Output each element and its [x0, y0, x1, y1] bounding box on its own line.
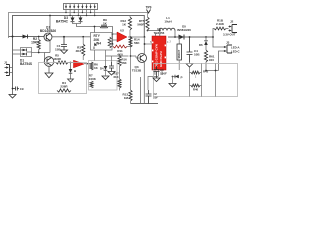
svg-text:J3: J3 [226, 41, 230, 45]
svg-text:BAT54C: BAT54C [56, 20, 69, 24]
ground C1 [61, 50, 68, 54]
capacitor C3 [109, 62, 114, 71]
op-amp U2 (red) [117, 32, 127, 42]
resistor R5 label [53, 54, 62, 62]
diode D3 label [56, 16, 69, 24]
svg-text:BAT54S: BAT54S [20, 62, 32, 66]
svg-text:910: 910 [209, 58, 214, 62]
ground C3 [108, 72, 115, 76]
wire V+ top rail (inner) [13, 16, 145, 91]
wire output rail [168, 36, 213, 38]
svg-text:J1: J1 [4, 61, 8, 65]
connector J1 [5, 65, 13, 76]
resistor R3 [82, 37, 85, 60]
transistor Q3 [136, 54, 147, 63]
box battery section [39, 63, 87, 94]
svg-text:10B: 10B [194, 53, 200, 57]
resistor R9 [100, 25, 117, 34]
wire lower box links [190, 64, 217, 97]
diode D7 [68, 63, 78, 83]
svg-text:2.49K: 2.49K [216, 22, 225, 26]
capacitor C1 [61, 36, 67, 50]
resistor R6 [90, 62, 99, 70]
wire Q1 collector [49, 15, 51, 34]
diode D1 (dual) [13, 48, 32, 57]
svg-text:SM04T: SM04T [177, 49, 181, 58]
resistor R18 bottom [191, 84, 200, 91]
svg-text:TS13B: TS13B [132, 69, 142, 73]
diode D3 (dual) [71, 16, 101, 33]
svg-text:D6: D6 [199, 43, 203, 47]
resistor R5 [54, 61, 73, 64]
diode D5 label [177, 25, 191, 33]
transistor Q3 label [132, 65, 142, 73]
trimmer RV1 text [94, 34, 102, 49]
wire Q2 collector [45, 52, 51, 54]
svg-text:C9: C9 [20, 87, 24, 91]
IC U1 label [154, 27, 165, 35]
wire Q1 emitter [49, 41, 51, 53]
resistor R12 [128, 16, 131, 38]
resistor RT5 [146, 17, 149, 31]
wire D1 to Q2 base [32, 52, 45, 61]
resistor RT5 label [137, 19, 145, 27]
svg-text:GND PwPd: GND PwPd [159, 51, 163, 67]
svg-text:P: P [181, 76, 183, 80]
wire Q3 emitter [143, 62, 145, 104]
wire Q1 base [9, 36, 45, 38]
resistor R16 (box) [177, 37, 181, 70]
wire Q3 collector [143, 37, 145, 55]
resistor R2 label [31, 37, 38, 45]
wire J3 cathode [219, 51, 224, 71]
svg-text:10K: 10K [31, 41, 38, 45]
svg-text:226R: 226R [60, 85, 68, 89]
svg-text:LED-C: LED-C [231, 50, 240, 54]
transistor Q1 [44, 33, 52, 41]
wire mid vertical 1 [131, 56, 137, 58]
pin numbers U1 [150, 41, 169, 75]
resistor R14 [129, 37, 132, 90]
wire x94 vertical [94, 50, 96, 61]
wire U1 pins left [144, 43, 152, 45]
diode D5 [179, 35, 185, 40]
diode D8 [172, 75, 183, 80]
wire U1 pin top [156, 30, 161, 36]
svg-text:560R: 560R [137, 23, 145, 27]
transistor Q1 label [40, 26, 56, 34]
label LED-A [231, 46, 240, 54]
svg-text:J2: J2 [230, 20, 234, 24]
wire U1 pins bottom [155, 70, 162, 76]
svg-text:IN5819/20: IN5819/20 [177, 28, 191, 32]
connector CON1 [64, 4, 98, 17]
test point TP9 [146, 6, 152, 14]
connector J2 [229, 25, 238, 33]
wire Q2 emitter to ground [45, 66, 53, 78]
resistor R16 [118, 55, 127, 70]
capacitor C2b [146, 90, 159, 104]
connector J3 label [226, 41, 230, 45]
node out junctions [174, 36, 207, 38]
label 3.3V-OUT [223, 33, 236, 37]
svg-text:D4: D4 [100, 67, 104, 71]
svg-text:4K3: 4K3 [75, 49, 81, 53]
diode D4 [100, 62, 107, 74]
inductor L1 [148, 28, 176, 37]
ground C5 [153, 78, 160, 82]
box output section [154, 64, 238, 97]
svg-text:4K3R: 4K3R [53, 57, 62, 61]
box feedback section [89, 61, 118, 91]
wire collector bus [52, 36, 91, 38]
resistor R8 right of box [108, 37, 111, 48]
ground left rail [9, 90, 16, 98]
resistor R9 label [103, 18, 108, 26]
IC U1 (red) [152, 36, 166, 70]
node base junction [12, 36, 14, 38]
resistor R15 label [209, 55, 215, 63]
svg-text:BD140/826: BD140/826 [40, 29, 56, 33]
wire J3 anode [212, 36, 223, 47]
wire x105 vertical [106, 50, 129, 62]
diode D6 [170, 37, 208, 50]
capacitor C5 [154, 66, 168, 78]
ground C4 [186, 62, 193, 67]
resistor R10 label [216, 19, 225, 27]
resistor R15 [204, 50, 218, 71]
svg-text:R46: R46 [193, 88, 199, 92]
svg-text:U2: U2 [120, 29, 124, 33]
svg-text:56K: 56K [122, 61, 127, 65]
ground D8 [169, 77, 176, 88]
wire V+ top rail (outer) [9, 13, 148, 39]
connector J2 label [230, 20, 234, 24]
resistor R17 top [191, 70, 209, 79]
inductor L1 label [164, 16, 171, 24]
svg-text:TP9: TP9 [146, 6, 152, 10]
diode D1 label [20, 59, 32, 67]
svg-text:100K: 100K [89, 77, 97, 81]
resistor R13 label [122, 93, 128, 101]
resistor R4 [57, 89, 71, 92]
ground D4 [102, 74, 109, 80]
resistor R13 [129, 90, 132, 104]
wire box to opamp inputs [112, 33, 117, 45]
capacitor C1 label [55, 44, 61, 52]
svg-text:10uH: 10uH [164, 20, 171, 24]
resistor R3 label [75, 46, 81, 54]
resistor R14 label [134, 38, 140, 46]
svg-text:56K: 56K [134, 41, 140, 45]
svg-text:100F: 100F [160, 72, 167, 76]
transistor Q2 [44, 57, 54, 67]
resistor R10 [213, 27, 229, 37]
svg-text:IN4: IN4 [96, 42, 101, 46]
resistor R7 [90, 81, 93, 88]
connector J3 [224, 45, 233, 53]
wire bottom bus [131, 77, 159, 104]
wire U2 output [128, 36, 145, 38]
svg-text:1M: 1M [124, 96, 129, 100]
resistor R11 feedback [113, 37, 131, 57]
box RV1 section [91, 33, 113, 51]
svg-text:3.3V-OUT: 3.3V-OUT [223, 33, 236, 37]
resistor R7 label [89, 74, 97, 82]
resistor R12 label [120, 19, 126, 27]
svg-text:61K: 61K [114, 75, 119, 79]
capacitor C2 left [12, 87, 24, 92]
connector J1 label [4, 61, 8, 65]
op-amp U2 label [120, 29, 124, 33]
op-amp U3 (red) [74, 60, 91, 68]
capacitor C4 [187, 37, 201, 62]
resistor R17 [114, 70, 122, 91]
diode D2 [23, 35, 28, 39]
resistor R4 label [60, 81, 68, 89]
resistor R2 [37, 36, 40, 53]
